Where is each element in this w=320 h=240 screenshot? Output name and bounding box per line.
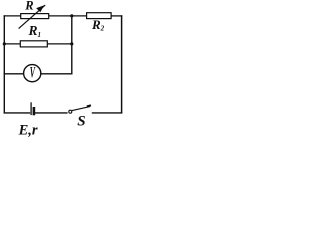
wire: R1 branch, left rail to R1	[4, 43, 21, 45]
switch S blade tip	[87, 104, 91, 107]
wire: left vertical rail	[3, 15, 5, 113]
resistor R1 box	[20, 41, 47, 47]
resistor R (rheostat) box	[21, 14, 49, 19]
battery long thin plate	[30, 102, 32, 115]
wire: voltmeter branch, left rail to meter	[4, 73, 24, 75]
svg-text:R1: R1	[28, 23, 42, 39]
wire: right vertical rail	[121, 15, 123, 113]
svg-text:S: S	[77, 114, 85, 130]
wire: bottom, left corner to battery	[4, 112, 31, 114]
voltmeter V circle	[24, 65, 41, 82]
wire: R2 to right rail	[111, 15, 122, 17]
wire: battery to switch	[35, 112, 68, 114]
svg-text:R: R	[24, 0, 33, 13]
rheostat arrow diagonal	[19, 5, 46, 29]
node C junction dot (middle rail / R1 branch)	[70, 42, 73, 45]
rheostat arrowhead	[36, 5, 44, 12]
wire: meter to middle rail	[41, 73, 73, 75]
wire: R1 to middle rail	[47, 43, 72, 45]
wire: rheostat to node A	[49, 15, 87, 17]
switch S blade	[72, 107, 90, 111]
node B junction dot (left rail / R1 branch)	[3, 42, 6, 45]
svg-text:E,r: E,r	[18, 123, 38, 139]
svg-text:V: V	[30, 65, 36, 82]
svg-text:R2: R2	[91, 17, 105, 32]
wire: switch to right corner	[92, 112, 123, 114]
switch S pivot circle	[69, 110, 72, 113]
resistor R2 box	[87, 13, 112, 19]
wire: middle vertical rail	[71, 16, 73, 75]
wire: top branch, left rail to rheostat	[4, 15, 22, 17]
battery short thick plate	[33, 107, 36, 115]
node A junction dot (top of middle rail)	[70, 14, 73, 17]
